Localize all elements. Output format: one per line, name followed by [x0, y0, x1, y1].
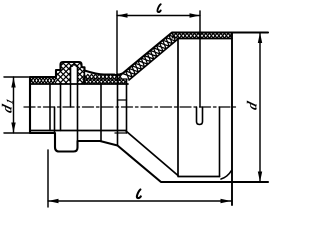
outer outline top	[30, 33, 268, 78]
slit slot	[197, 107, 203, 125]
right end face	[231, 33, 233, 205]
outer outline bottom	[30, 133, 268, 182]
bore bottom line	[30, 130, 126, 132]
hatch chain: middle outer wall	[84, 74, 122, 79]
dome channel	[71, 65, 78, 84]
dimension d1	[4, 76, 29, 78]
centerline	[24, 106, 237, 108]
hatch chain: big cylinder top wall	[172, 33, 232, 38]
label L (script)	[137, 190, 141, 199]
bore top line	[30, 83, 128, 85]
dimension L	[47, 150, 49, 207]
inner cone top and socket top inner line	[129, 39, 232, 81]
dome hatch fill	[56, 63, 85, 84]
label l (script)	[157, 4, 160, 12]
chamfer at right end	[221, 171, 232, 180]
left end face	[29, 77, 31, 133]
hatch chain: middle inner wall	[83, 80, 127, 84]
dimension d	[259, 33, 261, 183]
internal verticals	[49, 84, 51, 131]
inner bottom of socket	[178, 176, 220, 178]
hatch chain: cone wall	[123, 33, 176, 77]
dimension l	[116, 11, 118, 74]
technical section drawing of rubber reducing adapter	[0, 0, 272, 210]
hatch chain: small tube wall	[30, 78, 56, 84]
middle wall line	[83, 78, 127, 80]
inner cone bottom	[126, 131, 178, 176]
svg-text:d: d	[245, 99, 261, 111]
